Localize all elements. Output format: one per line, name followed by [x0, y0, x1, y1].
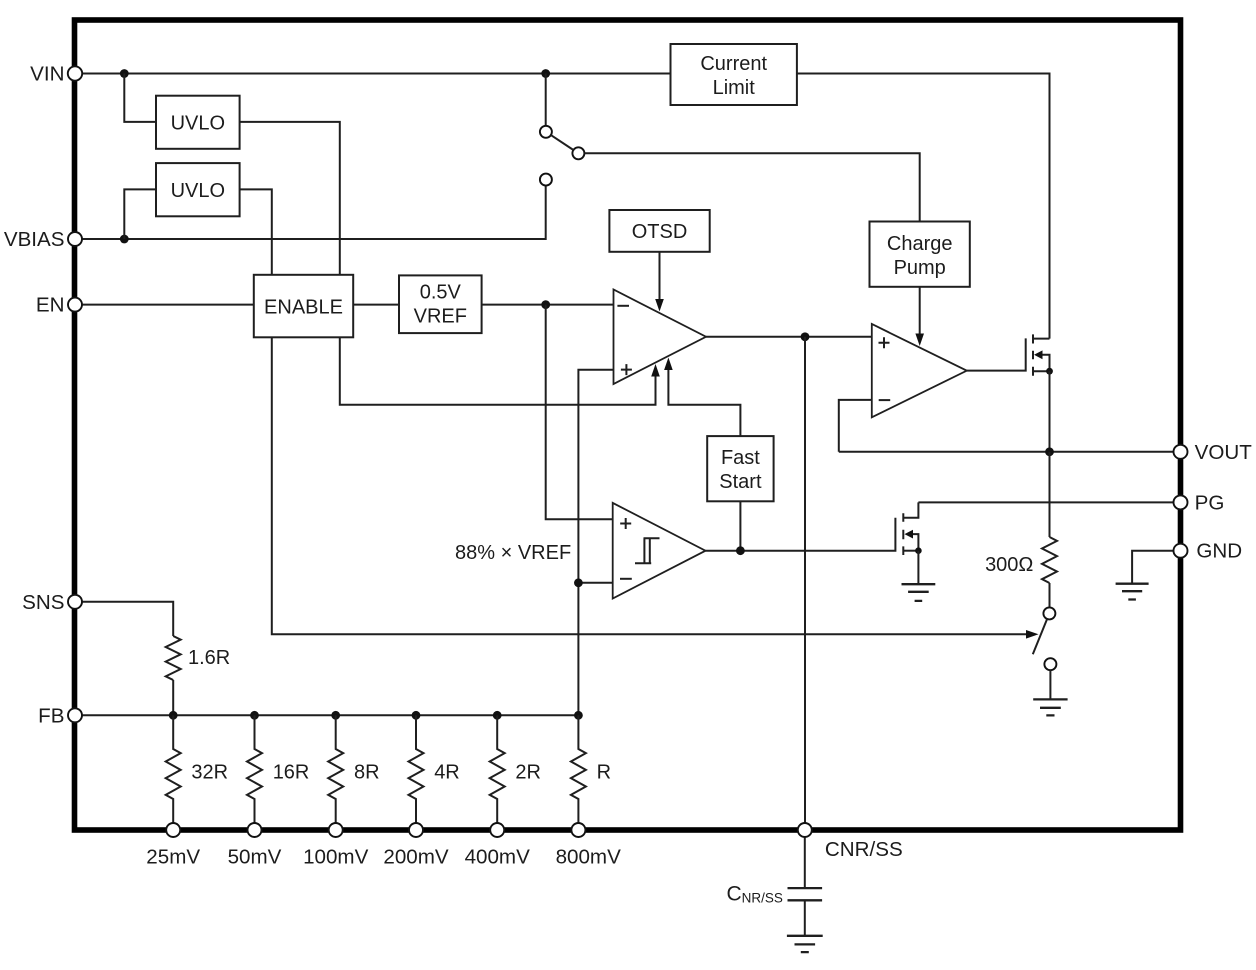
comparator U2 power-good — [613, 503, 706, 599]
wire switch pole to charge pump — [584, 153, 919, 221]
svg-text:8R: 8R — [354, 761, 380, 783]
svg-text:Fast: Fast — [721, 447, 760, 469]
pin VOUT — [1174, 445, 1188, 459]
svg-text:200mV: 200mV — [383, 846, 449, 869]
pin 50mV — [248, 823, 262, 837]
wire SNS to 1.6R — [75, 602, 174, 636]
pin FB — [68, 708, 82, 722]
resistor 16R — [247, 715, 262, 823]
resistor 300 ohm — [1042, 537, 1057, 583]
wire switch top from VIN — [545, 74, 547, 126]
transistor Q2 body arrow — [912, 534, 919, 551]
device outline border — [75, 20, 1181, 830]
svg-text:ENABLE: ENABLE — [264, 296, 343, 318]
wire VOUT down to 300 ohm — [1049, 452, 1051, 537]
wire node to CNR/SS pin — [804, 337, 806, 823]
svg-text:Current: Current — [700, 53, 767, 75]
ground (GND pin) — [1116, 584, 1149, 600]
svg-text:VBIAS: VBIAS — [4, 228, 65, 251]
resistor 4R — [409, 715, 424, 823]
node FB junction 4 — [412, 711, 421, 720]
svg-text:800mV: 800mV — [556, 846, 622, 869]
svg-text:Start: Start — [719, 471, 762, 493]
wire UVLO2 output — [240, 189, 272, 274]
node FB junction 1 — [169, 711, 178, 720]
op-amp U1 error amplifier — [614, 290, 707, 385]
transistor Q2 PG FET drain stub — [903, 502, 918, 517]
transistor Q1 pass PMOS gate — [967, 338, 1026, 370]
svg-text:UVLO: UVLO — [171, 180, 225, 202]
wire UVLO2 input — [124, 189, 156, 239]
node FB junction 3 — [331, 711, 340, 720]
svg-text:25mV: 25mV — [146, 846, 200, 869]
wire 300 ohm to discharge switch — [1049, 583, 1051, 607]
transistor Q1 channel — [1032, 334, 1034, 375]
op-amp U3 buffer driver — [872, 324, 967, 417]
svg-text:Pump: Pump — [894, 257, 946, 279]
pin SNS — [68, 595, 82, 609]
switch S1 blade — [551, 135, 574, 150]
capacitor CNR/SS — [788, 888, 823, 900]
resistor R-SNS 1.6R — [166, 636, 181, 680]
wire Q2 source to ground — [917, 551, 919, 585]
block Current Limit — [671, 44, 797, 105]
wire 1.6R to FB rail — [172, 680, 174, 715]
pin 400mV — [490, 823, 504, 837]
node error amp output junction — [801, 332, 810, 341]
wire PG rail — [918, 501, 1180, 503]
transistor Q2 channel — [902, 513, 904, 555]
node VBIAS-UVLO junction — [120, 235, 129, 244]
svg-text:300Ω: 300Ω — [985, 554, 1033, 576]
wire FB rail — [75, 714, 579, 716]
wire comparator inverting input from FB sense — [578, 582, 612, 584]
svg-text:1.6R: 1.6R — [188, 647, 230, 669]
hysteresis symbol — [635, 538, 660, 563]
svg-text:32R: 32R — [191, 761, 228, 783]
wire error amp output — [706, 336, 872, 338]
svg-text:VIN: VIN — [30, 63, 64, 86]
wire charge pump arrow into buffer amp — [919, 287, 921, 334]
svg-text:OTSD: OTSD — [632, 221, 688, 243]
resistor R — [571, 715, 586, 823]
node FB sense to comparator junction — [574, 578, 583, 587]
svg-text:50mV: 50mV — [228, 846, 282, 869]
pin 800mV — [571, 823, 585, 837]
node Q2 source junction — [915, 547, 922, 554]
capacitor CNR/SS wire — [804, 837, 806, 887]
block ENABLE — [254, 275, 353, 338]
svg-text:VOUT: VOUT — [1195, 441, 1253, 464]
svg-text:Limit: Limit — [713, 77, 756, 99]
ground (PG FET) — [902, 584, 936, 601]
block UVLO (VBIAS) — [156, 163, 240, 216]
resistor 8R — [328, 715, 343, 823]
pin CNR/SS — [798, 823, 812, 837]
node FB junction 5 — [493, 711, 502, 720]
svg-text:0.5V: 0.5V — [420, 282, 462, 304]
pin 100mV — [329, 823, 343, 837]
wire switch S2 to ground — [1049, 670, 1051, 699]
svg-text:FB: FB — [38, 704, 64, 727]
wire discharge control from ENABLE — [272, 337, 1026, 634]
wire fast start to comparator output — [739, 501, 741, 550]
pin VBIAS — [68, 232, 82, 246]
node FB junction 6 — [574, 711, 583, 720]
transistor Q1 body arrow — [1041, 355, 1050, 371]
wire VREF to error amp inverting input — [482, 304, 614, 306]
node FB junction 2 — [250, 711, 259, 720]
node VREF junction — [541, 300, 550, 309]
switch S1 contact B — [540, 174, 552, 186]
wire VBIAS rail — [75, 186, 546, 239]
block UVLO (VIN) — [156, 96, 240, 149]
svg-text:400mV: 400mV — [465, 846, 531, 869]
wire fast start arrow into error amp — [668, 370, 740, 436]
svg-text:SNS: SNS — [22, 591, 64, 614]
svg-text:CNR/SS: CNR/SS — [825, 838, 903, 861]
node comparator output junction — [736, 546, 745, 555]
svg-text:88% × VREF: 88% × VREF — [455, 542, 571, 564]
pin GND — [1174, 544, 1188, 558]
block Fast Start — [707, 436, 773, 501]
block OTSD — [609, 210, 709, 252]
svg-text:VREF: VREF — [414, 306, 467, 328]
pin EN — [68, 298, 82, 312]
pin 25mV — [166, 823, 180, 837]
switch S2 contact B — [1044, 658, 1056, 670]
svg-text:EN: EN — [36, 294, 65, 317]
svg-text:GND: GND — [1196, 540, 1242, 563]
transistor Q1 source stub — [1033, 370, 1050, 372]
block Charge Pump — [870, 222, 970, 287]
wire UVLO1 output — [240, 122, 340, 275]
switch S1 contact A — [540, 126, 552, 138]
node VOUT junction — [1045, 447, 1054, 456]
pin 200mV — [409, 823, 423, 837]
svg-text:2R: 2R — [515, 761, 541, 783]
wire buffer feedback from VOUT — [839, 400, 872, 452]
svg-text:UVLO: UVLO — [171, 113, 225, 135]
wire OTSD arrow into error amp — [659, 252, 661, 299]
svg-text:16R: 16R — [273, 761, 310, 783]
wire VOUT rail — [839, 451, 1181, 453]
switch S2 contact A — [1043, 607, 1055, 619]
wire GND pin to ground — [1132, 551, 1180, 584]
svg-text:PG: PG — [1195, 491, 1225, 514]
wire ENABLE to VREF — [353, 304, 399, 306]
pin PG — [1174, 495, 1188, 509]
wire comparator output to PG FET gate — [706, 518, 896, 551]
svg-text:100mV: 100mV — [303, 846, 369, 869]
svg-text:Charge: Charge — [887, 233, 953, 255]
node VIN-UVLO junction — [120, 69, 129, 78]
resistor 2R — [490, 715, 505, 823]
pin VIN — [68, 66, 82, 80]
wire enable arrow into error amp — [340, 337, 656, 405]
transistor Q2 source stub — [903, 550, 918, 552]
node Q1 source junction — [1046, 368, 1053, 375]
wire capacitor to ground — [804, 901, 806, 935]
wire Q1 source to VOUT — [1049, 371, 1051, 452]
node VIN-switch junction — [541, 69, 550, 78]
switch S1 pole — [572, 147, 584, 159]
ground (CNR/SS cap) — [787, 936, 823, 952]
block 0.5V VREF — [399, 275, 482, 333]
svg-text:4R: 4R — [434, 761, 460, 783]
svg-text:R: R — [597, 761, 611, 783]
resistor 32R — [166, 715, 181, 823]
wire VIN rail — [75, 74, 1050, 339]
wire VREF down to comparator non-inverting input — [546, 305, 613, 520]
switch S2 blade — [1033, 619, 1047, 654]
wire error amp non-inverting input from FB sense — [578, 370, 613, 716]
transistor Q1 drain stub — [1033, 338, 1050, 340]
wire UVLO1 input — [124, 74, 156, 122]
ground (discharge switch) — [1033, 699, 1067, 715]
wire EN input — [75, 304, 254, 306]
